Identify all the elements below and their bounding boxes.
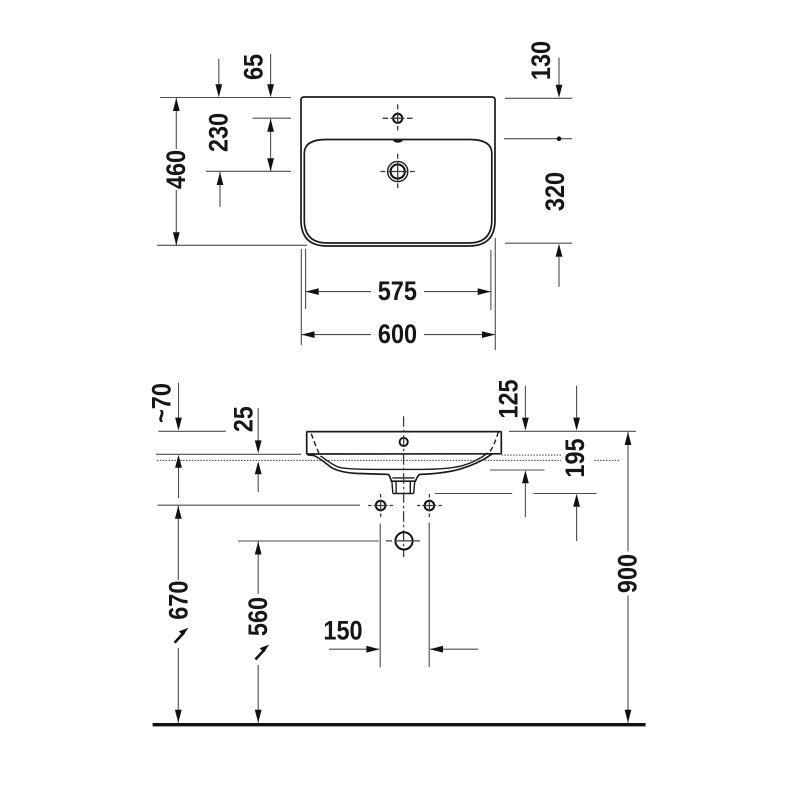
break mark 560 [255, 649, 265, 659]
svg-text:560: 560 [243, 597, 273, 636]
faucet hole (side view) [400, 438, 408, 446]
svg-text:25: 25 [229, 406, 259, 432]
dimension 900 [627, 432, 629, 552]
dimension 320 [558, 257, 560, 287]
svg-text:125: 125 [494, 379, 524, 418]
extension line drain level (y=171.3) [206, 170, 291, 172]
svg-text:~70: ~70 [147, 383, 177, 423]
hidden inner wall left (dashed) [311, 434, 322, 457]
extension line faucet level (y=118.2) [253, 117, 292, 119]
svg-text:230: 230 [204, 113, 234, 152]
dimension ~70 [178, 383, 180, 418]
svg-text:460: 460 [161, 150, 191, 189]
bowl underside outer curve [307, 454, 492, 481]
dimension 195 [576, 386, 578, 418]
drain centerlines [380, 171, 415, 173]
drain outer circle (top view) [388, 161, 408, 181]
dimension 65 outside arrows [218, 59, 220, 85]
bowl depth extension line [490, 469, 545, 471]
hidden inner wall right (dashed) [488, 432, 499, 453]
dotted reference line right of basin [502, 454, 562, 456]
drain inner circle (top view) [391, 164, 405, 178]
outside arrow at drain level [219, 172, 221, 207]
vertical centerline [403, 416, 405, 557]
dimension 130 [558, 58, 560, 86]
svg-text:900: 900 [613, 554, 643, 593]
dimension 460 line [175, 98, 177, 149]
extension line bottom edge (y=245.3) [157, 244, 307, 246]
svg-text:150: 150 [323, 616, 362, 646]
svg-text:65: 65 [239, 54, 269, 80]
floor line [153, 723, 646, 726]
svg-text:575: 575 [378, 277, 417, 307]
anchor holes level extension [158, 504, 361, 506]
faucet hole (top view) [393, 114, 402, 123]
dimension 230 line (inside arrows) [270, 119, 272, 171]
dimension 600 [302, 334, 372, 336]
extension line y=493.5 [435, 493, 512, 495]
rim top extension lines [158, 430, 226, 432]
anchor extension verticals [379, 524, 381, 668]
basin inner bowl outline (top view) [304, 140, 492, 244]
bowl inner curve (solid mid part) [322, 453, 488, 469]
svg-text:600: 600 [378, 320, 417, 350]
dimension 575 [306, 291, 371, 293]
svg-text:195: 195 [561, 438, 591, 477]
anchor hole right [425, 501, 435, 511]
svg-text:670: 670 [164, 581, 194, 620]
drain tailpiece [392, 481, 415, 493]
anchor hole left [376, 501, 386, 511]
svg-text:130: 130 [527, 41, 557, 80]
drain boss inner line [392, 477, 414, 479]
svg-text:320: 320 [541, 172, 571, 211]
bottom extension lines [300, 249, 302, 345]
basin profile (side view) [307, 432, 502, 454]
dimension 25 [257, 408, 259, 441]
dimension 560 [257, 542, 259, 595]
dimension 125 [524, 386, 526, 418]
waste hole level extension [238, 540, 379, 542]
basin outer outline (top view) [301, 97, 495, 246]
waste hole [395, 532, 412, 549]
extension line top edge (y=97.5) [160, 97, 291, 99]
dimension 670 [177, 506, 179, 580]
dotted reference line (long) [157, 459, 620, 461]
break mark 670 [175, 632, 185, 642]
right extension lines [505, 97, 572, 99]
rim bottom extension line left [156, 453, 301, 455]
overflow notch mark [393, 140, 403, 143]
